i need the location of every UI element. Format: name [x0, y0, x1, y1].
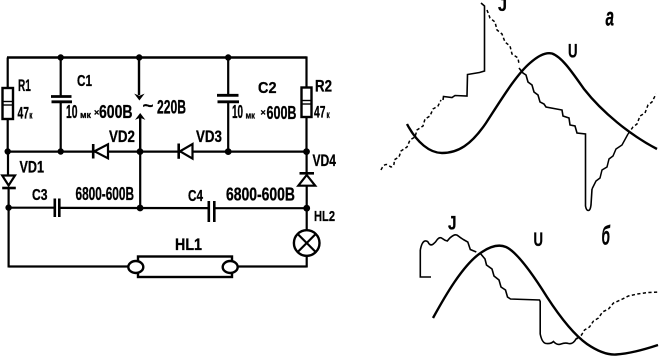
node right rail mid junction — [303, 148, 310, 155]
svg-text:VD4: VD4 — [313, 152, 337, 170]
plot b: curve J dashed rise right — [577, 292, 660, 339]
svg-text:к: к — [327, 110, 331, 121]
diode VD1 — [2, 159, 44, 189]
plot a: curve J dashed rise right — [628, 94, 656, 134]
capacitor C1 — [51, 58, 133, 152]
lamp HL2 — [294, 208, 335, 268]
svg-text:C1: C1 — [77, 73, 92, 90]
svg-text:C2: C2 — [258, 80, 277, 97]
wire HL1 to HL2 bottom — [238, 265, 307, 267]
svg-text:U: U — [534, 230, 544, 251]
svg-text:VD3: VD3 — [196, 128, 222, 146]
svg-text:б: б — [602, 221, 611, 251]
diode VD3 — [179, 128, 222, 159]
wire lower bus left segment — [9, 207, 54, 209]
svg-text:HL1: HL1 — [175, 236, 202, 254]
capacitor C2 — [217, 58, 297, 152]
svg-text:220В: 220В — [157, 98, 186, 119]
svg-text:10: 10 — [232, 101, 243, 122]
svg-text:R2: R2 — [315, 77, 332, 96]
wire AC down to lower bus — [139, 152, 141, 208]
node AC top — [136, 54, 142, 60]
wire left rail to VD1 — [7, 152, 9, 176]
wire lower bus mid segment — [60, 207, 208, 209]
node C3 bus left junction — [5, 204, 11, 210]
svg-text:600В: 600В — [267, 102, 297, 123]
node AC mid bus — [137, 148, 144, 155]
plot a: curve J dashed fall from spike — [487, 10, 519, 64]
wire right rail to VD4 — [306, 152, 308, 173]
wire lower bus right segment — [215, 207, 307, 209]
svg-text:J: J — [498, 0, 507, 15]
wire top rail — [7, 56, 307, 58]
svg-text:47: 47 — [314, 103, 325, 122]
node C2 top — [225, 54, 231, 60]
capacitor C3 — [32, 184, 134, 217]
node lower bus right junction — [303, 205, 310, 212]
svg-text:47: 47 — [18, 104, 29, 123]
wire left rail lower — [8, 188, 10, 268]
node VD3 right bus junction — [225, 148, 232, 155]
svg-text:мк: мк — [246, 111, 256, 122]
wire mid bus — [8, 151, 307, 153]
svg-text:6800-600В: 6800-600В — [226, 185, 295, 205]
svg-text:C4: C4 — [188, 188, 203, 205]
wire bottom rail — [9, 265, 130, 267]
svg-text:10: 10 — [66, 101, 78, 122]
diode VD4 — [298, 152, 336, 186]
svg-text:6800-600В: 6800-600В — [76, 184, 135, 204]
plot a: curve J left dashed rise — [381, 100, 441, 170]
capacitor C4 — [188, 185, 295, 223]
plot b: curve J jagged fall — [480, 253, 577, 344]
svg-text:600В: 600В — [99, 101, 133, 122]
wire left rail upper — [7, 58, 9, 90]
plot b: curve J start step — [420, 250, 431, 277]
plot b: curve J plateau wiggles — [420, 235, 476, 252]
AC source ~220V arrows — [134, 58, 186, 153]
svg-text:×: × — [261, 108, 266, 118]
svg-text:VD1: VD1 — [20, 159, 45, 177]
lamp HL1 fluorescent tube — [128, 236, 237, 277]
plot b: curve U — [433, 246, 658, 355]
node C1 bottom — [58, 148, 64, 154]
svg-text:а: а — [606, 2, 615, 32]
svg-text:VD2: VD2 — [109, 128, 135, 146]
plot a: curve J plateau and spike — [443, 3, 485, 100]
diode VD2 — [93, 128, 135, 159]
wire left rail mid — [7, 119, 9, 152]
svg-text:к: к — [29, 111, 33, 122]
plot a: curve J rise after dip — [592, 134, 628, 189]
resistor R1 — [3, 77, 34, 123]
node AC lower bus — [137, 205, 144, 212]
node C1 top — [58, 54, 64, 60]
svg-text:J: J — [448, 214, 457, 235]
node left-mid junction — [5, 148, 11, 154]
svg-text:HL2: HL2 — [314, 208, 335, 225]
svg-text:C3: C3 — [32, 187, 48, 204]
resistor R2 — [302, 77, 333, 122]
svg-text:U: U — [568, 42, 578, 63]
wire right rail upper — [305, 56, 307, 88]
wire right rail mid — [305, 117, 307, 152]
plot a: curve J mid jagged fall — [519, 68, 592, 211]
plot a: curve U — [407, 53, 657, 153]
svg-text:мк: мк — [80, 110, 91, 121]
wire VD4 to lower bus — [306, 186, 308, 209]
svg-text:R1: R1 — [18, 77, 31, 95]
svg-text:~: ~ — [143, 96, 154, 115]
